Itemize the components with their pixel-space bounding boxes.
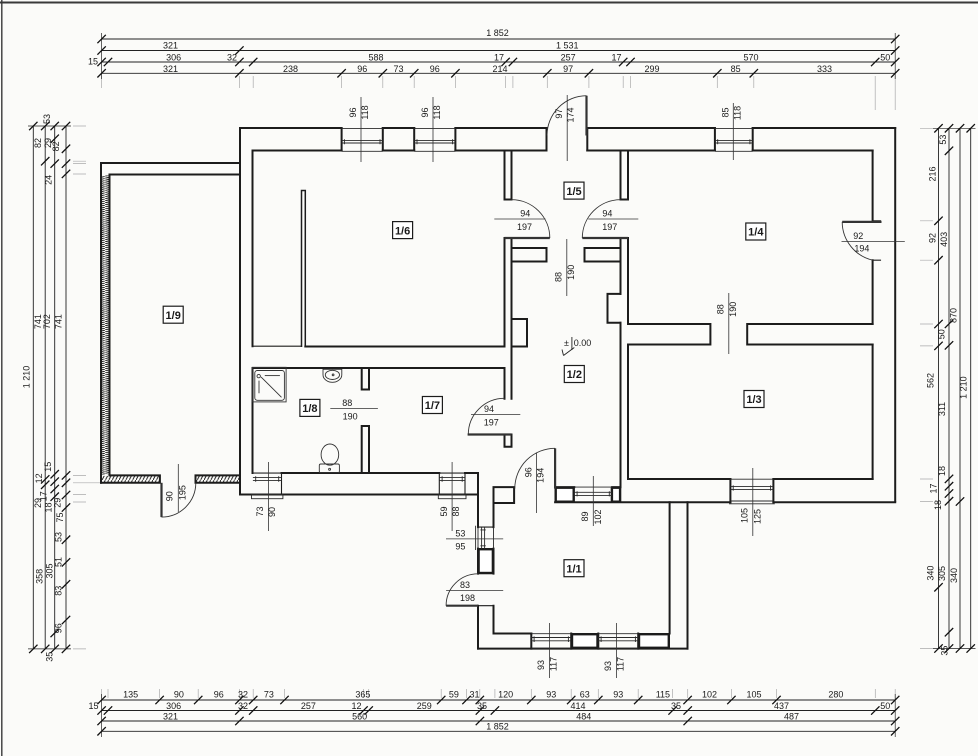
svg-text:32: 32	[238, 689, 248, 699]
svg-text:195: 195	[177, 485, 187, 500]
svg-text:216: 216	[928, 166, 938, 181]
svg-text:194: 194	[536, 468, 546, 483]
svg-text:96: 96	[357, 64, 367, 74]
svg-text:17: 17	[929, 483, 939, 493]
svg-text:59: 59	[439, 506, 449, 516]
svg-text:24: 24	[43, 175, 53, 185]
svg-text:50: 50	[880, 701, 890, 711]
svg-text:1 852: 1 852	[486, 28, 509, 38]
svg-text:870: 870	[949, 308, 959, 323]
svg-text:0.00: 0.00	[574, 338, 592, 348]
svg-text:93: 93	[603, 661, 613, 671]
svg-text:437: 437	[774, 701, 789, 711]
svg-text:53: 53	[455, 528, 465, 538]
svg-text:198: 198	[460, 593, 475, 603]
svg-text:321: 321	[163, 64, 178, 74]
svg-text:340: 340	[926, 566, 936, 581]
svg-text:117: 117	[549, 657, 559, 671]
svg-text:85: 85	[731, 64, 741, 74]
svg-text:96: 96	[420, 107, 430, 117]
svg-text:90: 90	[165, 491, 175, 501]
svg-text:194: 194	[854, 243, 869, 253]
svg-text:118: 118	[360, 105, 370, 119]
svg-text:93: 93	[536, 660, 546, 670]
svg-text:17: 17	[38, 491, 48, 501]
svg-text:73: 73	[255, 506, 265, 516]
svg-text:±: ±	[564, 338, 569, 348]
svg-text:83: 83	[460, 580, 470, 590]
svg-text:105: 105	[739, 508, 749, 523]
svg-text:50: 50	[880, 53, 890, 63]
svg-text:92: 92	[928, 233, 938, 243]
svg-text:257: 257	[561, 53, 576, 63]
svg-text:89: 89	[580, 511, 590, 521]
svg-text:15: 15	[88, 57, 98, 67]
svg-text:1/3: 1/3	[746, 394, 761, 406]
svg-text:63: 63	[580, 689, 590, 699]
svg-text:306: 306	[166, 53, 181, 63]
svg-text:257: 257	[301, 701, 316, 711]
svg-text:365: 365	[355, 689, 370, 699]
svg-text:102: 102	[593, 509, 603, 524]
svg-text:73: 73	[264, 689, 274, 699]
svg-text:12: 12	[34, 473, 44, 483]
svg-text:95: 95	[455, 541, 465, 551]
svg-text:97: 97	[554, 109, 564, 119]
svg-text:96: 96	[523, 467, 533, 477]
svg-text:702: 702	[42, 314, 52, 329]
svg-text:32: 32	[238, 701, 248, 711]
svg-text:1/1: 1/1	[566, 563, 581, 575]
svg-text:82: 82	[51, 141, 61, 151]
svg-text:305: 305	[937, 566, 947, 581]
svg-text:96: 96	[430, 64, 440, 74]
svg-text:321: 321	[163, 41, 178, 51]
svg-text:414: 414	[570, 701, 585, 711]
svg-text:588: 588	[368, 53, 383, 63]
svg-text:1 210: 1 210	[22, 366, 32, 389]
svg-text:53: 53	[42, 114, 52, 124]
svg-text:197: 197	[602, 222, 617, 232]
svg-text:83: 83	[53, 586, 63, 596]
svg-text:90: 90	[267, 507, 277, 517]
svg-text:190: 190	[566, 265, 576, 280]
svg-text:94: 94	[484, 404, 494, 414]
svg-text:35: 35	[940, 646, 950, 656]
svg-text:53: 53	[938, 135, 948, 145]
svg-text:120: 120	[498, 689, 513, 699]
svg-text:311: 311	[937, 402, 947, 416]
svg-text:73: 73	[393, 64, 403, 74]
svg-text:29: 29	[53, 498, 63, 508]
svg-text:197: 197	[517, 222, 532, 232]
svg-text:1/8: 1/8	[302, 403, 317, 415]
svg-text:18: 18	[937, 466, 947, 476]
svg-text:214: 214	[492, 64, 507, 74]
svg-text:1/7: 1/7	[425, 400, 440, 412]
svg-text:487: 487	[784, 711, 799, 721]
svg-text:88: 88	[715, 304, 725, 314]
svg-text:85: 85	[720, 107, 730, 117]
svg-text:90: 90	[174, 689, 184, 699]
svg-text:88: 88	[451, 506, 461, 516]
svg-text:1 852: 1 852	[486, 722, 509, 732]
svg-text:118: 118	[432, 105, 442, 119]
svg-text:35: 35	[671, 701, 681, 711]
svg-text:1 531: 1 531	[556, 41, 579, 51]
svg-text:35: 35	[477, 701, 487, 711]
svg-text:560: 560	[352, 711, 367, 721]
svg-text:1 210: 1 210	[959, 376, 969, 399]
svg-text:17: 17	[611, 53, 621, 63]
svg-text:50: 50	[937, 329, 947, 339]
svg-text:259: 259	[417, 701, 432, 711]
svg-text:96: 96	[53, 623, 63, 633]
svg-text:82: 82	[33, 138, 43, 148]
svg-text:31: 31	[469, 689, 479, 699]
svg-text:174: 174	[566, 107, 576, 122]
svg-text:299: 299	[644, 64, 659, 74]
svg-text:118: 118	[732, 106, 742, 120]
svg-text:53: 53	[53, 532, 63, 542]
svg-text:280: 280	[828, 689, 843, 699]
svg-text:88: 88	[342, 398, 352, 408]
svg-text:333: 333	[817, 64, 832, 74]
svg-text:96: 96	[348, 107, 358, 117]
svg-text:51: 51	[53, 557, 63, 567]
svg-text:1/9: 1/9	[166, 310, 181, 322]
svg-text:403: 403	[939, 232, 949, 247]
svg-text:32: 32	[227, 53, 237, 63]
svg-text:15: 15	[43, 462, 53, 472]
svg-text:741: 741	[54, 314, 64, 329]
svg-text:562: 562	[926, 373, 936, 388]
svg-text:35: 35	[44, 652, 54, 662]
svg-text:117: 117	[616, 657, 626, 671]
svg-text:102: 102	[702, 689, 717, 699]
svg-text:18: 18	[933, 500, 943, 510]
svg-text:190: 190	[728, 302, 738, 317]
svg-text:358: 358	[34, 569, 44, 584]
svg-text:92: 92	[853, 231, 863, 241]
svg-text:94: 94	[602, 209, 612, 219]
svg-text:59: 59	[449, 689, 459, 699]
svg-text:190: 190	[343, 412, 358, 422]
svg-text:197: 197	[484, 417, 499, 427]
svg-text:1/4: 1/4	[748, 227, 764, 239]
svg-text:340: 340	[949, 568, 959, 583]
svg-text:96: 96	[214, 689, 224, 699]
svg-text:1/2: 1/2	[567, 369, 582, 381]
svg-text:115: 115	[656, 689, 670, 699]
svg-text:93: 93	[613, 689, 623, 699]
svg-text:125: 125	[752, 509, 762, 524]
svg-text:75: 75	[55, 512, 65, 522]
svg-text:1/5: 1/5	[566, 186, 581, 198]
svg-text:321: 321	[163, 711, 178, 721]
svg-text:12: 12	[351, 701, 361, 711]
svg-text:105: 105	[746, 689, 761, 699]
svg-text:17: 17	[494, 53, 504, 63]
svg-text:238: 238	[283, 64, 298, 74]
svg-text:94: 94	[520, 209, 530, 219]
svg-text:15: 15	[88, 701, 98, 711]
svg-text:88: 88	[553, 272, 563, 282]
svg-text:306: 306	[166, 701, 181, 711]
svg-text:93: 93	[546, 689, 556, 699]
svg-text:1/6: 1/6	[395, 225, 410, 237]
svg-text:484: 484	[576, 711, 591, 721]
svg-text:135: 135	[123, 689, 138, 699]
svg-text:97: 97	[563, 64, 573, 74]
svg-text:570: 570	[743, 53, 758, 63]
